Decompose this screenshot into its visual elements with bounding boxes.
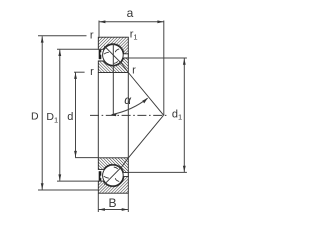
dimension a: extension lines: [98, 21, 100, 37]
dimension D: extension lines: [38, 35, 87, 37]
contact line lower: [104, 115, 163, 184]
svg-text:D1: D1: [46, 111, 58, 124]
dimension B: extension lines: [97, 194, 99, 213]
contact line upper: [104, 46, 163, 115]
arrow d bottom: [74, 151, 77, 157]
dimension d1: extension lines: [128, 57, 187, 59]
svg-text:r1: r1: [130, 29, 138, 42]
outer ring (lower), hatched ///: [98, 177, 128, 194]
arrow D1 top: [58, 50, 61, 56]
arrow a left: [99, 20, 105, 23]
left silhouette connector: [97, 73, 99, 158]
outer ring (upper), hatched ///: [98, 37, 128, 54]
dimension D1: extension lines: [57, 48, 98, 50]
svg-text:d1: d1: [172, 109, 182, 122]
svg-text:d: d: [67, 111, 73, 123]
radial line through upper ball: [112, 45, 114, 116]
race shoulder mark left (lower): [104, 176, 109, 178]
right silhouette connector: [127, 73, 129, 158]
alpha arc arrow left: [111, 113, 117, 116]
svg-text:r: r: [90, 30, 94, 42]
race shoulder mark top-right: [115, 49, 119, 52]
arrow d1 top: [183, 59, 186, 65]
arrow d1 bottom: [183, 166, 186, 172]
lower bearing section (mirror of upper about y=115.2): [98, 158, 128, 193]
dimension d: line: [75, 73, 77, 158]
arrow a right: [157, 20, 163, 23]
svg-text:α: α: [124, 93, 132, 107]
arrow D1 bottom: [58, 174, 61, 180]
svg-text:r: r: [132, 64, 136, 76]
arrow d top: [74, 73, 77, 79]
race shoulder mark bottom: [114, 61, 118, 63]
dimension d: extension lines: [74, 71, 85, 73]
cage (lower, left black block): [99, 171, 102, 180]
dimension D: line: [41, 36, 43, 189]
svg-text:a: a: [127, 6, 134, 20]
centerline (dash-dot axis): [90, 114, 167, 116]
angle alpha arc: [112, 98, 148, 114]
right face edge across upper notch: [127, 53, 129, 58]
svg-text:B: B: [109, 196, 117, 210]
arrow B right: [122, 208, 128, 211]
dimension B: line: [99, 209, 129, 211]
ball (lower): [103, 165, 124, 186]
arrow D bottom: [41, 183, 44, 189]
dimension D1: line: [59, 50, 61, 181]
dimension a: line: [99, 21, 164, 23]
inner ring (upper), hatched \\\: [98, 58, 128, 73]
upper bearing section: [98, 37, 128, 72]
dimension d1: line: [183, 58, 185, 172]
race shoulder mark top-right (lower): [115, 178, 119, 181]
svg-text:D: D: [31, 111, 39, 123]
arrow D top: [41, 36, 44, 42]
cage (upper, left black block): [99, 50, 102, 59]
svg-text:r: r: [90, 66, 94, 78]
inner ring (lower), hatched \\\: [98, 158, 128, 173]
right face edge across lower notch: [127, 172, 129, 177]
arrow B left: [99, 208, 105, 211]
race shoulder mark bottom (lower): [114, 167, 118, 169]
race shoulder mark left: [104, 52, 109, 54]
alpha arc arrow right: [142, 98, 148, 104]
ball (upper): [103, 45, 124, 66]
